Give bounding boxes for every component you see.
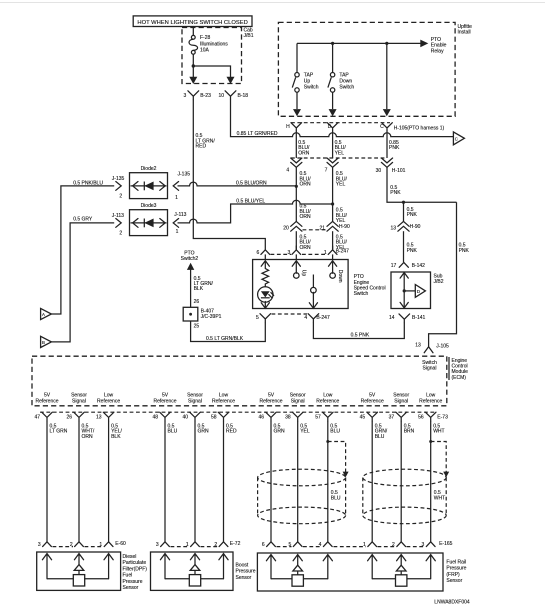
bus wire to PTO Enable Relay [297,42,421,44]
shield cylinder group3 [258,469,346,524]
svg-text:1: 1 [363,542,366,548]
svg-text:E-60: E-60 [115,541,126,547]
svg-text:J/B1: J/B1 [244,33,254,39]
svg-text:H: H [286,124,290,130]
connector E-165 pin 1 [363,542,377,548]
connector E-72 pin 2 [214,542,228,548]
arrow to PTO Enable Relay [420,40,428,48]
shield drain group4 [429,440,449,477]
svg-text:Switch: Switch [339,85,354,91]
junction dot PNK branch [402,201,405,204]
wire pin21 to B-247 pin1 [332,231,334,250]
svg-text:H-90: H-90 [410,224,421,230]
connector H-101 pin 30 [376,158,406,174]
svg-text:YEL: YEL [335,150,345,156]
junction dot BLU/YEL [331,202,334,205]
LED out arrow [261,302,269,309]
svg-text:5: 5 [289,542,292,548]
svg-text:Diesel: Diesel [123,554,137,560]
buffer triangle D [404,285,425,298]
svg-text:LNWA8DXF004: LNWA8DXF004 [434,600,470,606]
svg-text:2: 2 [119,194,122,200]
wire A to J-135 (0.5 PNK/BLU) [51,186,114,314]
wire 48 (0.5 BLU) [164,421,166,542]
wire 38 (0.5 YEL) [297,421,299,542]
connector B-23 pin 3 [184,91,212,100]
svg-text:1: 1 [176,229,179,235]
strip E-165 [277,546,292,548]
svg-text:21: 21 [320,226,326,232]
pivot out arrow [309,292,317,308]
svg-text:Particulate: Particulate [123,560,147,566]
svg-text:2: 2 [392,542,395,548]
diode2 symbol [131,182,167,191]
connector ECM pin 45 [360,412,378,421]
strip H-90 20-21 [303,229,327,231]
svg-text:Signal: Signal [188,398,202,404]
svg-text:J/B2: J/B2 [434,279,444,285]
svg-text:LT GRN: LT GRN [50,429,68,435]
svg-text:J-135: J-135 [112,176,125,182]
svg-text:3: 3 [422,542,425,548]
svg-text:13: 13 [96,415,102,421]
svg-text:46: 46 [258,415,264,421]
svg-text:BLK: BLK [194,286,204,292]
connector H-101 pin 4 [286,158,301,173]
svg-text:13: 13 [415,343,421,349]
svg-text:Diode2: Diode2 [141,166,157,172]
svg-text:2: 2 [214,542,217,548]
ECM pin strip [40,411,436,413]
connector ECM pin 38 [285,412,303,421]
svg-text:Filter(DPF): Filter(DPF) [123,566,148,572]
connector ECM pin 56 [418,412,436,421]
wire pin4 to B-141 (0.5 PNK) [313,323,404,339]
connector ECM pin 46 [258,412,276,421]
wire 46 (0.5 GRN) [270,421,272,542]
DPF sensor internals [42,554,113,586]
svg-text:B-18: B-18 [238,93,249,99]
svg-text:38: 38 [285,415,291,421]
connector ECM pin 58 [211,412,229,421]
pivot circle [311,287,317,293]
wire B-407 to B-247 pin5 (0.5 LT GRN/BLK) [191,321,266,342]
Upfitter dashed box [278,22,455,116]
connector J-135 pin 2 [112,176,125,200]
FRP sensor internals left [266,555,332,587]
svg-text:J/C-39P1: J/C-39P1 [201,314,222,320]
svg-text:0.5 PNK/BLU: 0.5 PNK/BLU [73,180,103,186]
Down contact arrow [329,261,337,274]
wire B-23 down (0.5 LT GRN/RED) with hops [193,100,265,250]
svg-text:(FRP): (FRP) [446,572,460,578]
PTO switch box [253,260,349,309]
svg-text:0.5 PNK: 0.5 PNK [351,333,370,339]
wire pin20 to B-247 pin3 [295,231,297,250]
svg-text:RED: RED [226,429,237,435]
DPF sensor box [37,552,121,590]
wire into fuse [192,28,194,36]
wire J-113 to dot (0.5 BLU/YEL) with hop [178,200,333,223]
junction dot TAP down [331,42,334,45]
FRP sensor box [257,553,443,591]
svg-text:Diode3: Diode3 [141,203,157,209]
svg-text:Sensor: Sensor [123,585,139,591]
junction B-407 J/C-39P1 [183,307,221,321]
junction dot [192,64,195,67]
svg-text:WHT: WHT [434,496,445,502]
wire junction to right branch [193,66,230,77]
svg-text:PNK: PNK [407,212,418,218]
svg-text:Switch: Switch [304,85,319,91]
svg-text:YEL: YEL [336,182,346,188]
connector E-60 pin 2 [70,542,84,548]
connector H-90 pin 20 [283,221,302,231]
svg-text:B: B [42,340,45,345]
connector B-247 pin 3 [288,246,301,256]
junction dot BLU/ORN [295,185,298,188]
arrow into B-18 [227,77,235,84]
svg-text:25: 25 [194,324,200,330]
connector ECM pin 26 [66,412,84,421]
Up contact circle [294,273,300,279]
svg-text:Up: Up [301,270,307,277]
svg-text:B-23: B-23 [200,93,211,99]
svg-text:YEL: YEL [336,218,346,224]
wire 40 (0.5 GRN) [194,421,196,542]
svg-text:RED: RED [196,144,207,150]
svg-text:14: 14 [389,315,395,321]
svg-text:ORN: ORN [300,214,312,220]
diode2 box [130,166,168,198]
wire 13 (0.5 YEL/BLK) [108,421,110,542]
svg-text:Reference: Reference [97,398,120,404]
svg-text:H-105(PTO harness 1): H-105(PTO harness 1) [394,125,445,131]
arrow down H [293,109,301,116]
connector J-105 pin 13 [415,343,449,353]
svg-text:40: 40 [182,415,188,421]
diode3 box [130,203,168,235]
connector E-165 pin 3 [422,542,436,548]
strip B-247 top [271,253,292,255]
wire right PNK down to J-105 [429,202,457,346]
right drop wire [386,43,388,109]
svg-text:H-90: H-90 [339,224,350,230]
svg-text:GRN: GRN [198,429,210,435]
connector E-165 pin 5 [289,542,303,548]
connector ECM pin 47 [34,412,52,421]
connector D [327,123,338,131]
svg-text:BLU: BLU [375,434,385,440]
strip E-60 [53,546,74,548]
svg-text:Pressure: Pressure [446,566,466,572]
svg-text:0.5 LT GRN/BLK: 0.5 LT GRN/BLK [206,336,244,342]
svg-text:J-135: J-135 [178,171,191,177]
LED branch arrow in [261,261,269,269]
connector E-72 pin 3 [156,542,170,548]
wire B-18 right (0.85 LT GRN/RED) with hops over H,D,C [231,100,454,137]
svg-text:BLU: BLU [330,429,340,435]
svg-text:E-165: E-165 [439,541,453,547]
wire dot down to H-90 pin13 [403,202,405,221]
svg-text:5: 5 [256,315,259,321]
Sub J/B2 box [391,272,444,309]
svg-text:H-101: H-101 [392,168,406,174]
svg-text:17: 17 [391,263,397,269]
svg-text:Signal: Signal [291,398,305,404]
svg-text:PNK: PNK [389,145,400,151]
svg-text:Switch: Switch [354,291,369,297]
svg-text:48: 48 [152,415,158,421]
svg-text:PNK: PNK [407,248,418,254]
svg-text:YEL: YEL [300,429,310,435]
connector E-60 pin 1 [99,542,113,548]
svg-text:7: 7 [325,167,328,173]
svg-text:ORN: ORN [300,245,312,251]
svg-text:Sensor: Sensor [446,578,462,584]
svg-text:20: 20 [283,226,289,232]
svg-text:D: D [328,124,332,130]
svg-text:Install: Install [458,30,471,36]
wire 45 (0.5 GRN/BLU) [371,421,373,542]
svg-text:E-73: E-73 [437,415,448,421]
svg-text:PNK: PNK [390,190,401,196]
strip H-101 [291,157,387,159]
svg-text:BLU: BLU [168,429,178,435]
svg-text:0.85 LT GRN/RED: 0.85 LT GRN/RED [237,131,278,137]
svg-text:26: 26 [66,415,72,421]
svg-text:ORN: ORN [300,182,312,188]
svg-text:30: 30 [376,168,382,174]
connector B (triangle) [41,336,52,347]
TAP Down Switch [328,43,335,109]
svg-text:1: 1 [99,542,102,548]
Cab J/B1 dashed box [182,28,242,84]
svg-text:3: 3 [288,250,291,256]
svg-text:57: 57 [315,415,321,421]
wire J-135 to dot (0.5 BLU/ORN) with hop [178,182,297,186]
svg-text:J-105: J-105 [436,343,449,349]
arrow down C [383,109,391,116]
connector E-72 pin 1 [186,542,200,548]
wires into PTO switch box [264,254,266,259]
svg-text:37: 37 [389,415,395,421]
strip B-247 bottom [272,313,308,315]
svg-text:Signal: Signal [394,398,408,404]
connector B-18 pin 10 [218,91,248,100]
connector A (triangle) [41,308,52,319]
connector B-142 pin 17 [391,262,425,268]
wire pin4 down to H-90 pin20 (0.5 BLU/ORN) [295,167,297,221]
svg-text:2: 2 [119,231,122,237]
connector C pin [380,123,392,131]
svg-text:BLU: BLU [331,496,341,502]
fuse F-28 10A [189,35,198,54]
connector ECM pin 48 [152,412,170,421]
svg-text:58: 58 [211,415,217,421]
svg-text:WHT: WHT [433,429,444,435]
connector H-101 pin 7 [325,158,339,173]
svg-text:3: 3 [184,93,187,99]
svg-text:B-141: B-141 [412,315,426,321]
svg-text:ORN: ORN [82,434,94,440]
svg-text:J-113: J-113 [112,213,124,219]
svg-text:1: 1 [324,250,327,256]
connector J-135 pin 1 [173,171,190,201]
svg-text:Pressure: Pressure [236,569,256,575]
connector H [286,123,302,131]
connector E-60 pin 3 [38,542,52,548]
internal wire with arrows [400,273,408,308]
svg-text:F-28: F-28 [200,35,211,41]
wire H down [295,131,297,158]
svg-text:4: 4 [286,167,289,173]
svg-text:Fuel Rail: Fuel Rail [446,559,466,565]
svg-text:Down: Down [337,270,343,283]
wire arrow to B-407 [190,270,192,308]
strip H-105 [291,122,390,124]
svg-text:Sensor: Sensor [236,575,252,581]
connector ECM pin 57 [315,412,333,421]
svg-text:Reference: Reference [153,398,176,404]
ECM dashed box [32,356,447,406]
svg-text:Relay: Relay [431,48,444,54]
Up contact arrow [292,261,300,274]
svg-text:Pressure: Pressure [123,579,143,585]
connector B-247 pin 4 [304,314,330,323]
connector B-247 pin 1 [324,246,349,256]
connector B-247 pin 6 [257,250,270,256]
arrow into B-23 [189,77,197,84]
svg-text:Switch2: Switch2 [181,256,199,262]
connector H-90 pin 21 [320,221,350,231]
diode3 symbol [131,219,167,228]
svg-text:3: 3 [156,542,159,548]
Boost sensor box [151,552,234,590]
connector E-165 pin 6 [262,542,276,548]
svg-text:Boost: Boost [236,563,249,569]
wire D down [332,131,334,158]
svg-text:B-142: B-142 [412,263,426,269]
connector ECM pin 37 [389,412,407,421]
arrow up PTO Switch2 [187,263,194,270]
connector C (big triangle right) [453,132,464,145]
wire 57 (0.5 BLU) [327,421,329,542]
svg-text:10A: 10A [200,48,210,54]
svg-text:0.5 GRY: 0.5 GRY [73,216,93,222]
LED [258,287,274,302]
svg-text:B-247: B-247 [316,315,330,321]
shield cylinder group4 [363,469,446,524]
wire 37 (0.5 BRN) [400,421,402,542]
svg-text:6: 6 [262,542,265,548]
svg-text:Reference: Reference [35,398,58,404]
wire B to J-113 (0.5 GRY) [51,223,114,342]
svg-text:Illuminations: Illuminations [200,41,228,47]
svg-text:C: C [380,124,384,130]
wire 56 (0.5 WHT) [430,421,432,542]
wire pin7 down to H-90 pin21 (0.5 BLU/YEL) [332,167,334,221]
svg-text:Signal: Signal [72,398,86,404]
svg-text:45: 45 [360,415,366,421]
svg-text:ORN: ORN [298,150,310,156]
svg-text:Fuel: Fuel [123,573,133,579]
FRP sensor internals right [368,555,436,587]
resistor [262,269,269,288]
svg-text:6: 6 [257,250,260,256]
svg-text:Reference: Reference [259,398,282,404]
Down contact circle [330,273,336,279]
connector ECM pin 40 [182,412,200,421]
Boost sensor internals [160,554,228,586]
svg-text:(ECM): (ECM) [452,375,467,381]
svg-text:26: 26 [194,299,200,305]
connector ECM pin 13 [96,412,114,421]
svg-text:1: 1 [186,542,189,548]
top hairline [0,2,545,4]
svg-text:Signal: Signal [423,366,437,372]
wire pin30 PNK down and right [387,167,457,202]
svg-text:13: 13 [391,226,397,232]
svg-text:47: 47 [34,415,40,421]
ECM title separator [448,357,450,380]
arrow down D [329,109,337,116]
svg-text:B-247: B-247 [336,248,350,254]
title box HOT WHEN LIGHTING SWITCH CLOSED [133,16,252,27]
strip E-72 [171,546,190,548]
svg-text:4: 4 [319,542,322,548]
svg-text:Reference: Reference [212,398,235,404]
wire fuse to junction [192,54,194,77]
connector E-165 pin 2 [392,542,406,548]
pivot blade [312,275,314,289]
svg-text:0.5 BLU/ORN: 0.5 BLU/ORN [236,180,267,186]
svg-text:0.5 BLU/YEL: 0.5 BLU/YEL [236,198,265,204]
connector B-247 pin 5 [256,314,271,323]
wire 47 (0.5 LT GRN) [46,421,48,542]
connector E-165 pin 4 [319,542,333,548]
wire C down [386,131,388,158]
svg-text:56: 56 [418,415,424,421]
svg-text:2: 2 [70,542,73,548]
svg-text:J-113: J-113 [174,212,186,218]
wire 26 (0.5 WHT/ORN) [78,421,80,542]
svg-text:3: 3 [38,542,41,548]
connector H-90 pin 13 [391,221,421,231]
svg-text:HOT WHEN LIGHTING SWITCH CLOSE: HOT WHEN LIGHTING SWITCH CLOSED [137,20,247,26]
svg-text:Reference: Reference [361,398,384,404]
svg-text:1: 1 [175,195,178,201]
TAP Up Switch [292,43,299,109]
svg-text:BLK: BLK [111,434,121,440]
svg-text:Reference: Reference [316,398,339,404]
svg-text:A: A [42,312,45,317]
connector B-141 pin 14 [389,314,426,323]
svg-text:GRN: GRN [274,429,286,435]
svg-text:PNK: PNK [459,248,470,254]
svg-text:E-72: E-72 [230,541,241,547]
connector J-113 pin 1 [173,212,186,235]
junction dot right drop [385,42,388,45]
svg-text:BRN: BRN [404,429,415,435]
svg-text:C: C [455,137,458,142]
wire 58 (0.5 RED) [223,421,225,542]
connector J-113 pin 2 [112,213,124,237]
svg-text:10: 10 [218,93,224,99]
wire pin13 to B-142 [403,231,405,262]
svg-text:4: 4 [304,315,307,321]
svg-text:Reference: Reference [419,398,442,404]
